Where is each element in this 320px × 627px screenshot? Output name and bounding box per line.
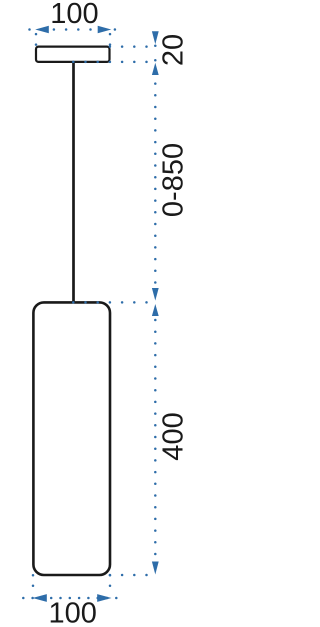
0-850 dim down arrow	[152, 288, 159, 301]
svg-text:20: 20	[157, 34, 189, 66]
svg-text:400: 400	[157, 412, 189, 460]
400 dim up arrow	[152, 304, 159, 316]
extension dots above canopy left corner	[35, 33, 38, 45]
bottom dimension left arrow	[33, 594, 47, 602]
lamp top extension dotted line	[73, 301, 152, 304]
top dimension left arrow	[35, 26, 49, 34]
20 dim up arrow	[152, 63, 159, 75]
canopy (ceiling mount)	[36, 47, 110, 62]
top dimension right arrow	[98, 26, 112, 34]
lamp bottom extension dotted line	[110, 574, 153, 577]
canopy bottom extension dotted line	[73, 61, 152, 64]
extension dots below lamp right corner	[109, 575, 112, 590]
extension dots above canopy right corner	[109, 33, 112, 45]
svg-text:100: 100	[49, 598, 97, 627]
svg-text:100: 100	[50, 0, 98, 30]
400 dim down arrow	[152, 562, 159, 575]
svg-text:0-850: 0-850	[157, 143, 189, 217]
extension dots below lamp left corner	[32, 575, 35, 590]
20 dim down arrow	[152, 31, 159, 44]
top dimension dotted line	[30, 28, 116, 31]
bottom dimension dotted line	[23, 597, 116, 600]
lamp shade body	[33, 302, 110, 575]
vertical dimension dotted line segment (0-850)	[154, 60, 157, 288]
wire	[72, 61, 75, 302]
vertical dimension dotted line segment (400)	[154, 320, 157, 561]
vertical dimension dotted line segment (20)	[154, 45, 157, 48]
bottom dimension right arrow	[97, 594, 111, 602]
canopy top extension dotted line	[110, 45, 153, 48]
